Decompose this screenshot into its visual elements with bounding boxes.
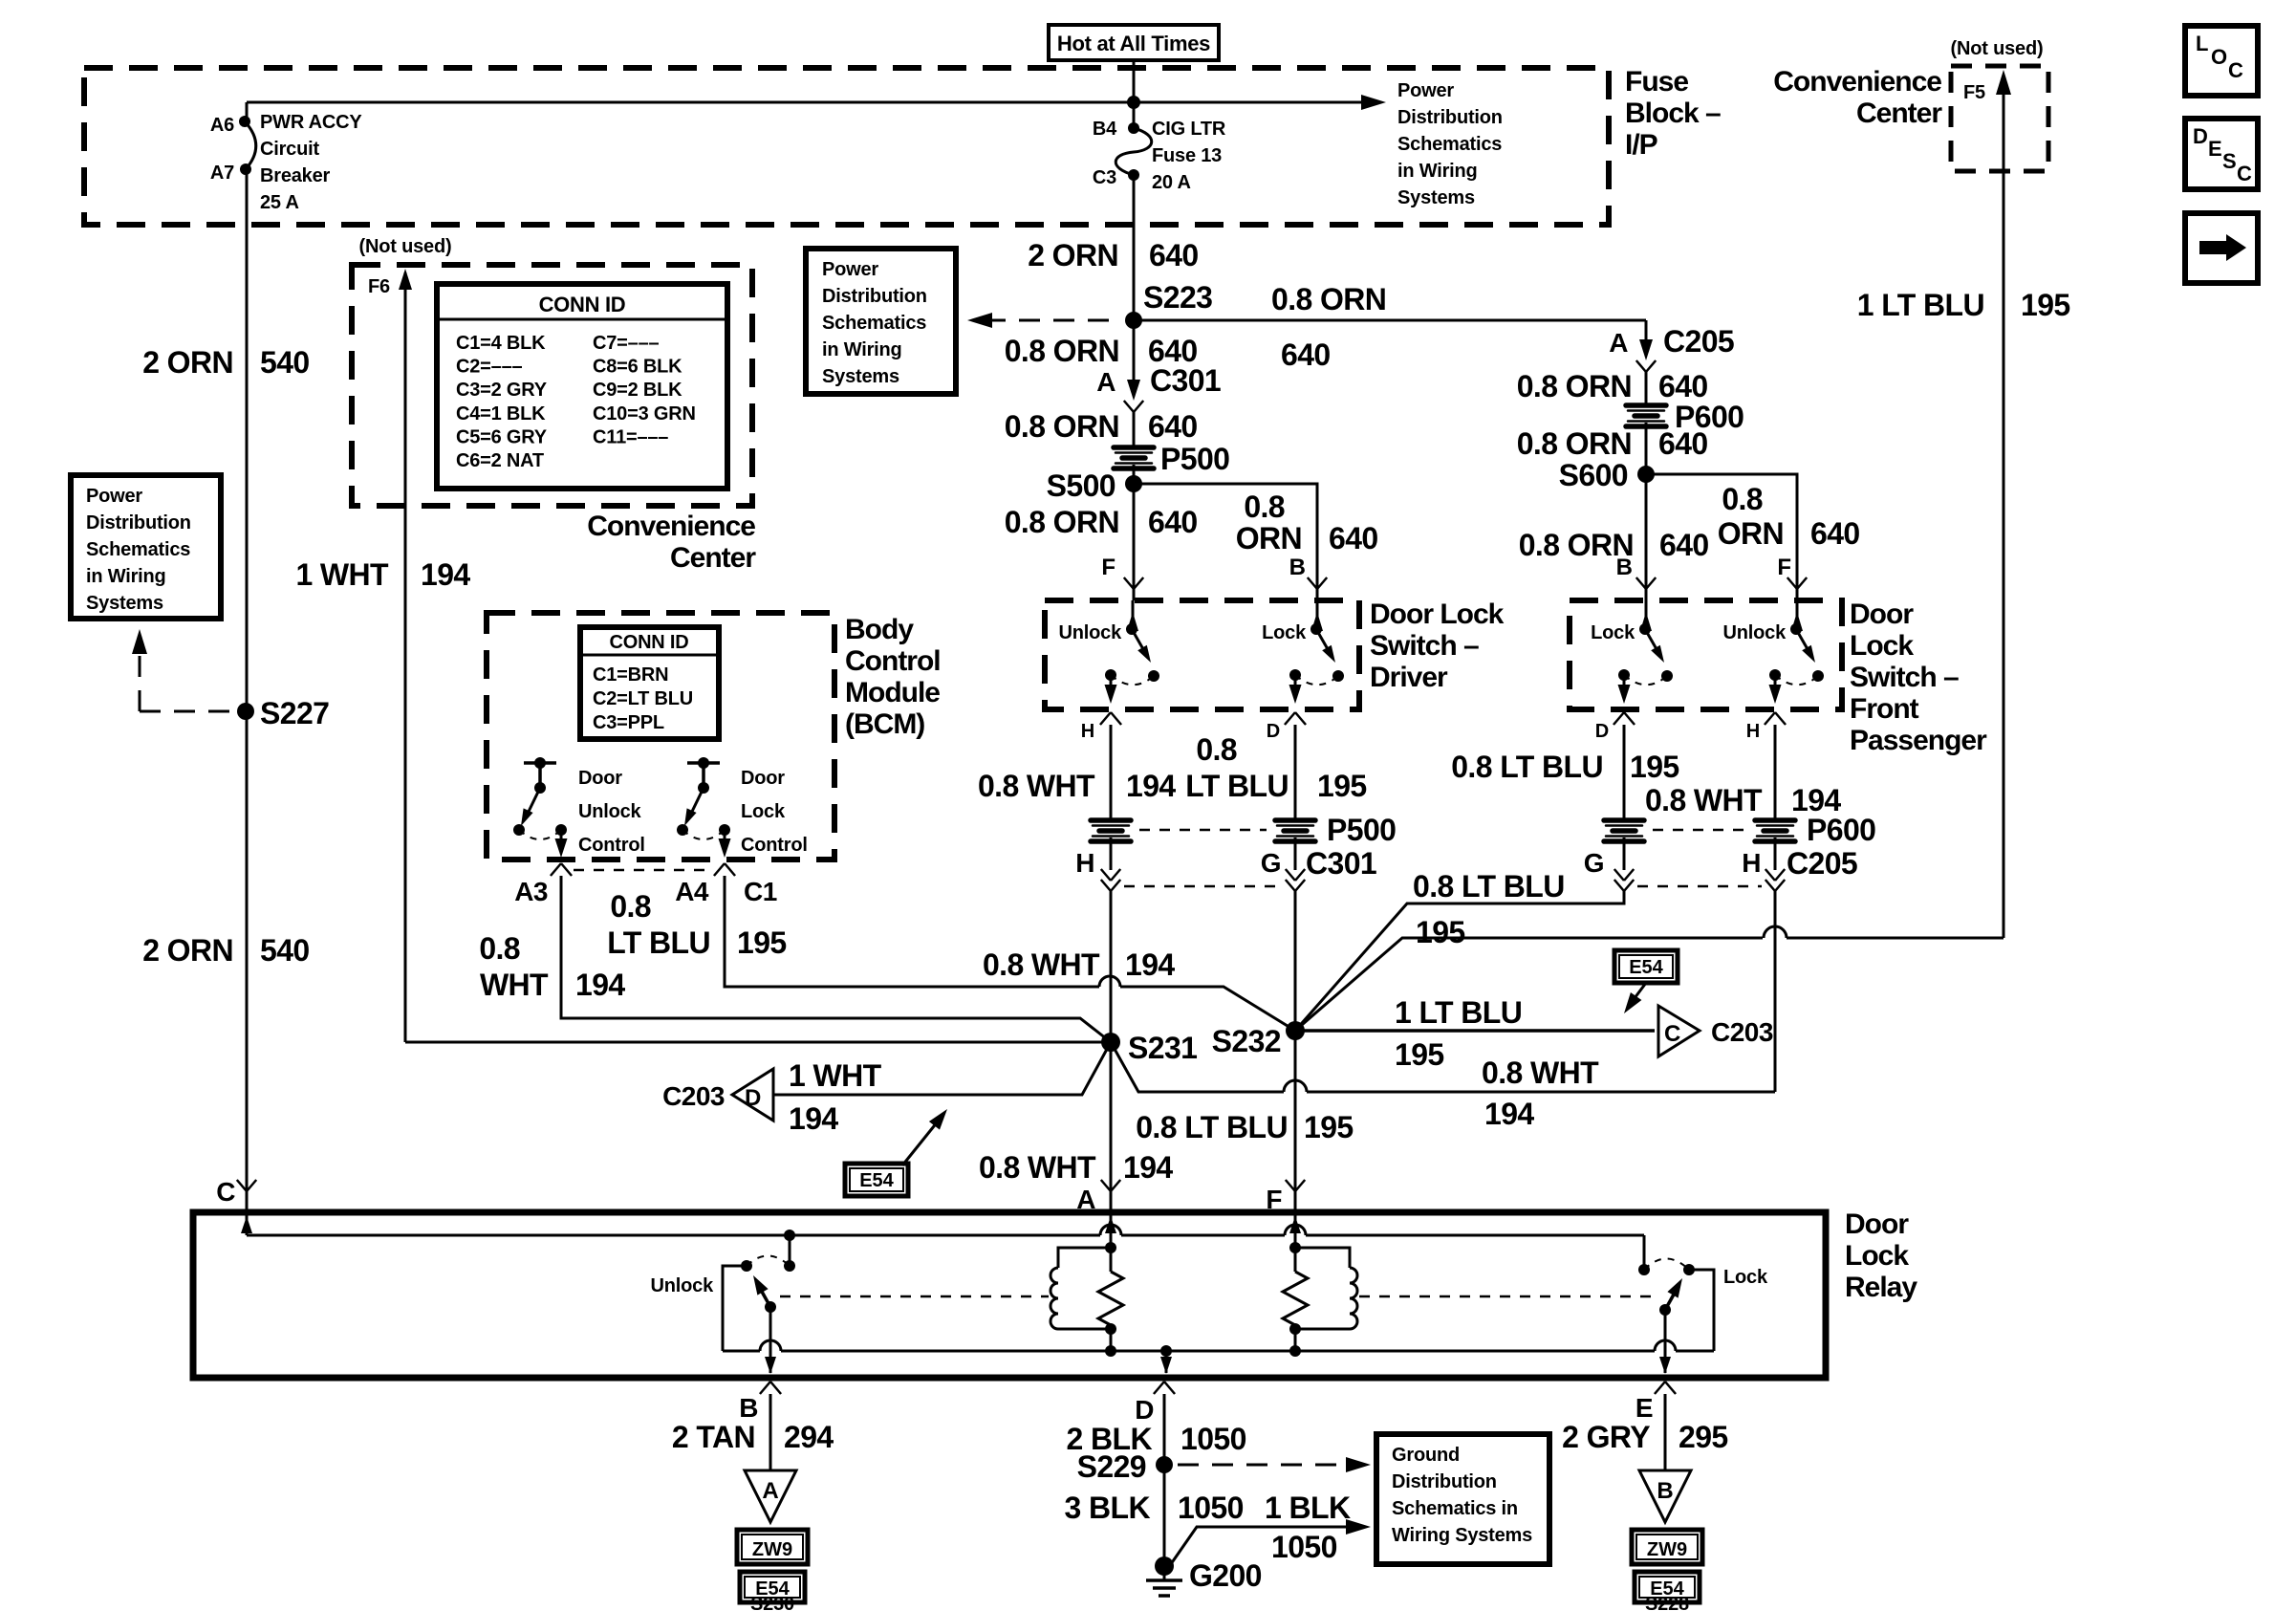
svg-text:194: 194 [1123,1150,1173,1185]
svg-text:0.8 LT BLU: 0.8 LT BLU [1451,750,1603,784]
svg-text:Block –: Block – [1625,98,1721,129]
svg-text:F: F [1101,555,1116,580]
wire breaker down [246,169,249,226]
svg-text:Fuse: Fuse [1625,66,1688,98]
svg-text:S229: S229 [1077,1449,1146,1484]
wire fuse down [1133,175,1136,320]
svg-text:in Wiring: in Wiring [1397,161,1478,182]
E54 box left bottom [740,1572,805,1602]
svg-text:C5=6 GRY: C5=6 GRY [456,426,548,447]
E54 box upper [1614,950,1678,983]
svg-text:C3=PPL: C3=PPL [593,712,664,733]
node S231 [1101,1033,1120,1052]
svg-text:0.8 ORN: 0.8 ORN [1517,426,1632,461]
dashed link BCM pins [574,869,712,872]
connector C203 D triangle [732,1069,773,1121]
svg-text:25 A: 25 A [260,192,299,213]
pin D relay bottom [1154,1382,1164,1394]
dashed arrow to power dist center box [985,319,1122,322]
svg-text:Lock: Lock [1850,630,1914,662]
svg-text:195: 195 [1317,769,1367,803]
wire A3 to S231 [561,876,1111,1042]
svg-text:F6: F6 [368,276,390,297]
dashed to ground box [1178,1464,1355,1467]
svg-text:D: D [1595,721,1609,742]
pin B relay bottom [760,1382,770,1394]
svg-text:B: B [1657,1478,1673,1504]
pin H driver below box [1100,712,1111,725]
svg-text:S228: S228 [1645,1594,1689,1611]
svg-text:S227: S227 [260,696,329,730]
dashed link P500 [1139,829,1267,832]
switch Lock [1645,600,1648,629]
svg-text:1 LT BLU: 1 LT BLU [1857,288,1984,322]
E54 box lower [845,1164,908,1196]
svg-text:S223: S223 [1143,280,1212,315]
svg-text:C1=4 BLK: C1=4 BLK [456,333,546,354]
svg-text:2 TAN: 2 TAN [672,1420,755,1454]
svg-text:D: D [2193,124,2208,148]
svg-text:Lock: Lock [1591,622,1635,643]
svg-text:0.8 WHT: 0.8 WHT [983,947,1100,982]
svg-text:194: 194 [421,557,470,592]
wire S232 down to relay F [1294,1031,1297,1191]
svg-text:C6=2 NAT: C6=2 NAT [456,450,544,471]
svg-text:Fuse 13: Fuse 13 [1152,145,1222,166]
connector P500 driver H [1091,820,1131,841]
svg-text:Center: Center [670,542,756,574]
svg-text:0.8 WHT: 0.8 WHT [1645,783,1763,817]
svg-text:C8=6 BLK: C8=6 BLK [593,357,682,378]
wire S600 down to B pin passenger [1645,474,1648,589]
wire C301 to P500 [1133,412,1136,449]
svg-text:194: 194 [1125,947,1175,982]
svg-text:1050: 1050 [1178,1491,1244,1525]
svg-text:E54: E54 [859,1170,894,1191]
wire S500 down to F pin [1133,484,1136,589]
svg-text:C203: C203 [1711,1017,1773,1047]
svg-text:A4: A4 [675,877,709,906]
connector P600 inline [1626,405,1666,426]
DESC legend box [2185,119,2258,189]
svg-text:Ground: Ground [1392,1445,1460,1466]
svg-text:640: 640 [1329,521,1378,555]
svg-text:Power: Power [86,486,142,507]
wire S231 to passenger H 0.8 WHT [1111,1042,1284,1092]
svg-text:640: 640 [1149,238,1199,272]
svg-text:640: 640 [1658,369,1708,403]
svg-text:0.8 WHT: 0.8 WHT [1482,1056,1599,1090]
svg-text:Schematics: Schematics [822,313,926,334]
wire F6 arrow [404,272,407,506]
svg-text:C3: C3 [1093,167,1116,188]
arrow E54 to wire [1629,983,1646,1006]
relay D exit [1165,1351,1168,1373]
svg-text:A6: A6 [210,115,234,136]
relay lock coil and resistor [1289,1242,1301,1253]
svg-text:C1: C1 [744,877,777,906]
svg-text:C: C [1664,1021,1680,1047]
svg-text:1 BLK: 1 BLK [1265,1491,1351,1525]
wire 1 BLK 1050 [1166,1527,1355,1571]
svg-text:C: C [2228,58,2243,82]
relay A entry [1110,1212,1113,1248]
dashed link C301 [1124,885,1282,888]
svg-text:Systems: Systems [86,593,163,614]
relay lock contact stub [1643,1235,1646,1270]
pin D driver below box [1285,712,1295,725]
svg-text:C9=2 BLK: C9=2 BLK [593,380,682,401]
svg-text:194: 194 [789,1101,838,1136]
svg-text:(Not used): (Not used) [359,236,452,257]
wire S500 branch to B pin driver [1134,484,1317,589]
switch Door Lock [687,761,720,765]
svg-text:540: 540 [260,345,310,380]
ground G200 [1155,1557,1174,1576]
svg-text:Schematics: Schematics [86,539,190,560]
svg-text:CONN ID: CONN ID [539,293,626,316]
svg-text:0.8 WHT: 0.8 WHT [979,1150,1096,1185]
wire D to C205 row [1623,838,1626,870]
svg-text:C: C [216,1177,235,1207]
svg-text:640: 640 [1658,426,1708,461]
svg-text:195: 195 [2021,288,2070,322]
svg-text:Unlock: Unlock [651,1275,715,1296]
wire C205 to P600 [1645,372,1648,407]
svg-text:Door Lock: Door Lock [1370,599,1505,630]
fuse CIG LTR Fuse 13 [1128,122,1139,134]
wire 1WHT into S231 [405,1041,1111,1044]
svg-text:A3: A3 [514,877,548,906]
svg-text:F5: F5 [1963,82,1985,103]
svg-text:ZW9: ZW9 [1647,1539,1687,1560]
svg-text:C7=–––: C7=––– [593,333,659,354]
dashed mech unlock [780,1295,1049,1298]
relay B exit [769,1307,772,1373]
svg-text:E54: E54 [1629,957,1663,978]
svg-text:640: 640 [1148,505,1198,539]
svg-text:C1=BRN: C1=BRN [593,664,668,686]
svg-text:Distribution: Distribution [1392,1471,1497,1492]
door lock switch front passenger dashed box [1570,600,1842,709]
wire 1 WHT 194 [404,506,407,1042]
pin A3 chevron [551,863,561,876]
wire S223 down to C301 [1133,320,1136,394]
svg-text:195: 195 [1304,1110,1354,1144]
svg-text:WHT: WHT [480,968,549,1002]
relay F entry [1294,1212,1297,1248]
svg-text:C2=LT BLU: C2=LT BLU [593,688,693,709]
svg-text:Passenger: Passenger [1850,725,1987,756]
svg-text:194: 194 [575,968,625,1002]
svg-text:640: 640 [1659,528,1709,562]
svg-text:G200: G200 [1189,1558,1262,1593]
svg-text:0.8: 0.8 [1196,732,1237,767]
svg-text:640: 640 [1148,409,1198,444]
wire S600 branch to F passenger [1646,474,1797,589]
svg-text:Door: Door [578,768,622,789]
svg-text:Relay: Relay [1845,1272,1917,1303]
svg-text:in Wiring: in Wiring [822,339,902,360]
svg-text:P500: P500 [1327,813,1396,847]
svg-text:I/P: I/P [1625,129,1657,161]
door lock relay box [193,1212,1826,1378]
relay bottom bus [1105,1345,1116,1357]
svg-text:E: E [1635,1393,1653,1423]
svg-text:A: A [1096,367,1116,397]
svg-text:D: D [1135,1395,1154,1425]
svg-text:3 BLK: 3 BLK [1065,1491,1151,1525]
svg-text:C301: C301 [1150,363,1221,398]
svg-text:H: H [1081,721,1094,742]
ZW9 box left [737,1530,808,1564]
svg-text:D: D [745,1085,761,1111]
svg-text:S232: S232 [1212,1024,1281,1058]
relay unlock coil and resistor [1105,1242,1116,1253]
wire 2 ORN 540 lower [246,711,249,1191]
wire D to C301 row [1294,838,1297,870]
svg-text:ORN: ORN [1236,521,1302,555]
svg-text:E: E [2208,137,2221,161]
svg-text:B: B [739,1393,758,1423]
svg-text:Lock: Lock [1723,1267,1768,1288]
relay wire C entry [246,1212,249,1235]
svg-text:194: 194 [1126,769,1176,803]
LOC legend box [2185,26,2258,96]
svg-text:Power: Power [1397,80,1454,101]
power distribution schematics center box [806,249,956,394]
pin E relay bottom [1655,1382,1665,1394]
connector P500 inline [1114,447,1154,468]
svg-text:Power: Power [822,259,878,280]
svg-text:Lock: Lock [1845,1240,1909,1272]
svg-text:1050: 1050 [1271,1530,1337,1564]
svg-text:0.8: 0.8 [1722,482,1763,516]
svg-text:PWR ACCY: PWR ACCY [260,112,362,133]
svg-text:C11=–––: C11=––– [593,426,668,447]
connector P600 passenger H [1755,820,1795,841]
svg-text:B: B [1289,555,1306,580]
relay top bus [247,1234,1100,1237]
svg-text:LT BLU: LT BLU [1185,769,1289,803]
svg-text:H: H [1075,848,1094,878]
wire H chevron to S231 [1110,891,1113,1042]
wire 1 LT BLU 195 to F5 [2003,75,2005,938]
svg-text:C10=3 GRN: C10=3 GRN [593,403,696,425]
svg-text:Switch –: Switch – [1370,630,1479,662]
svg-text:L: L [2196,32,2208,55]
node S227 [237,703,254,720]
svg-text:S231: S231 [1128,1031,1197,1065]
svg-text:Switch –: Switch – [1850,662,1959,693]
switch Unlock [1132,600,1135,629]
svg-text:C2=–––: C2=––– [456,357,522,378]
svg-text:O: O [2211,45,2227,69]
svg-text:B: B [1616,555,1633,580]
svg-text:Control: Control [578,835,645,856]
svg-text:S600: S600 [1559,458,1628,492]
svg-text:Unlock: Unlock [578,801,642,822]
svg-text:0.8: 0.8 [1244,490,1285,524]
svg-text:S230: S230 [750,1594,794,1611]
wire S232 to F5 riser [1295,938,1763,1031]
node S600 [1637,466,1655,483]
arrow legend box [2185,213,2258,283]
svg-text:Distribution: Distribution [1397,107,1503,128]
svg-text:F: F [1777,555,1791,580]
wire P500 to S500 [1133,465,1136,484]
svg-text:C: C [2237,162,2252,185]
svg-text:C3=2 GRY: C3=2 GRY [456,380,548,401]
connector C203 C triangle [1658,1006,1700,1056]
svg-text:Unlock: Unlock [1723,622,1787,643]
connector B triangle [1639,1470,1691,1522]
pin A4 C1 chevron [714,863,725,876]
wire P600 to S600 [1645,423,1648,474]
svg-text:295: 295 [1679,1420,1728,1454]
svg-text:Unlock: Unlock [1059,622,1123,643]
arrow to power distribution [1361,95,1386,110]
svg-text:Control: Control [845,645,941,677]
dashed link P600 [1653,829,1746,832]
svg-text:Schematics in: Schematics in [1392,1498,1518,1519]
svg-text:Hot at All Times: Hot at All Times [1057,32,1210,55]
wire H to C205 row [1774,838,1777,870]
svg-text:Body: Body [845,614,914,645]
svg-text:A: A [1609,328,1628,358]
svg-text:Center: Center [1856,98,1942,129]
svg-text:Systems: Systems [1397,187,1475,208]
svg-text:Module: Module [845,677,940,708]
svg-text:H: H [1746,721,1760,742]
svg-text:H: H [1742,848,1761,878]
ground box [1376,1434,1549,1564]
svg-text:195: 195 [1630,750,1679,784]
svg-text:P600: P600 [1807,813,1875,847]
power distribution schematics left box [71,475,221,619]
svg-text:S: S [2222,149,2236,173]
svg-text:195: 195 [737,925,787,960]
svg-text:2 ORN: 2 ORN [142,933,233,968]
svg-text:(Not used): (Not used) [1951,38,2044,59]
svg-text:LT BLU: LT BLU [607,925,710,960]
svg-text:Front: Front [1850,693,1919,725]
svg-text:2 ORN: 2 ORN [1028,238,1118,272]
svg-text:P500: P500 [1160,442,1229,476]
svg-text:ORN: ORN [1718,516,1784,551]
svg-text:Driver: Driver [1370,662,1448,693]
relay E exit [1664,1310,1667,1373]
ZW9 box right [1632,1530,1702,1564]
wire hot to bus [1133,60,1136,128]
dashed mech lock [1359,1295,1658,1298]
node S223 [1125,312,1142,329]
CONN ID table convenience center [437,284,727,489]
svg-text:Lock: Lock [741,801,786,822]
dashed arrow to left box [139,642,141,711]
svg-text:2 ORN: 2 ORN [142,345,233,380]
switch Unlock [1796,600,1799,629]
wire G chevron to S232 [1294,891,1297,1031]
svg-text:C205: C205 [1663,324,1734,359]
wire G passenger to S232 [1295,891,1624,1031]
svg-text:0.8 LT BLU: 0.8 LT BLU [1413,869,1565,903]
svg-text:(BCM): (BCM) [845,708,924,740]
svg-text:Distribution: Distribution [86,512,191,533]
svg-text:0.8: 0.8 [479,931,520,966]
node S232 [1286,1021,1305,1040]
svg-text:640: 640 [1281,337,1331,372]
body control module dashed box [487,613,834,860]
connector P600 passenger D [1604,820,1644,841]
Hot at All Times box [1049,25,1219,60]
door lock switch driver dashed box [1045,600,1359,709]
wire H passenger down to WHT run [1774,891,1777,1092]
svg-text:C203: C203 [662,1081,725,1111]
svg-text:S500: S500 [1047,468,1116,503]
connector P500 driver D [1275,820,1315,841]
svg-text:0.8 ORN: 0.8 ORN [1005,334,1119,368]
svg-text:20 A: 20 A [1152,172,1191,193]
svg-text:294: 294 [784,1420,834,1454]
svg-text:B4: B4 [1093,119,1117,140]
svg-text:C4=1 BLK: C4=1 BLK [456,403,546,425]
svg-text:1 WHT: 1 WHT [295,557,389,592]
pin H passenger below box [1765,712,1775,725]
svg-text:540: 540 [260,933,310,968]
svg-text:195: 195 [1395,1037,1444,1072]
wire D triangle to S231 1 WHT [773,1042,1111,1095]
circuit breaker PWR ACCY [246,102,249,121]
svg-text:CONN ID: CONN ID [609,632,688,653]
switch Lock [1316,600,1319,629]
svg-text:CIG LTR: CIG LTR [1152,119,1226,140]
internal bus wire [247,101,1369,104]
wire 2 ORN 540 upper [246,226,249,711]
node S229 [1156,1456,1173,1473]
svg-text:2 GRY: 2 GRY [1562,1420,1650,1454]
svg-text:Lock: Lock [1262,622,1307,643]
svg-text:Door: Door [1850,599,1914,630]
relay unlock contact stub [784,1230,795,1241]
svg-text:195: 195 [1416,915,1465,949]
E54 box right bottom [1635,1572,1700,1602]
svg-text:1050: 1050 [1180,1422,1246,1456]
svg-text:D: D [1267,721,1280,742]
svg-text:Distribution: Distribution [822,286,927,307]
svg-text:Convenience: Convenience [587,511,755,542]
svg-text:640: 640 [1810,516,1860,551]
svg-text:C205: C205 [1787,846,1857,881]
svg-text:0.8 LT BLU: 0.8 LT BLU [1136,1110,1288,1144]
svg-text:Door: Door [1845,1208,1909,1240]
svg-text:G: G [1584,848,1604,878]
svg-text:Systems: Systems [822,366,899,387]
svg-text:in Wiring: in Wiring [86,566,166,587]
node S500 [1125,475,1142,492]
wire C1 to S232 [725,876,1099,987]
junction bus/hot [1127,96,1140,109]
svg-text:Circuit: Circuit [260,139,319,160]
pin D passenger below box [1614,712,1624,725]
svg-text:0.8 ORN: 0.8 ORN [1005,409,1119,444]
svg-text:Door: Door [741,768,785,789]
svg-text:Wiring Systems: Wiring Systems [1392,1525,1532,1546]
svg-text:0.8 ORN: 0.8 ORN [1517,369,1632,403]
svg-text:C301: C301 [1306,846,1376,881]
svg-text:Schematics: Schematics [1397,134,1502,155]
svg-text:Convenience: Convenience [1773,66,1941,98]
